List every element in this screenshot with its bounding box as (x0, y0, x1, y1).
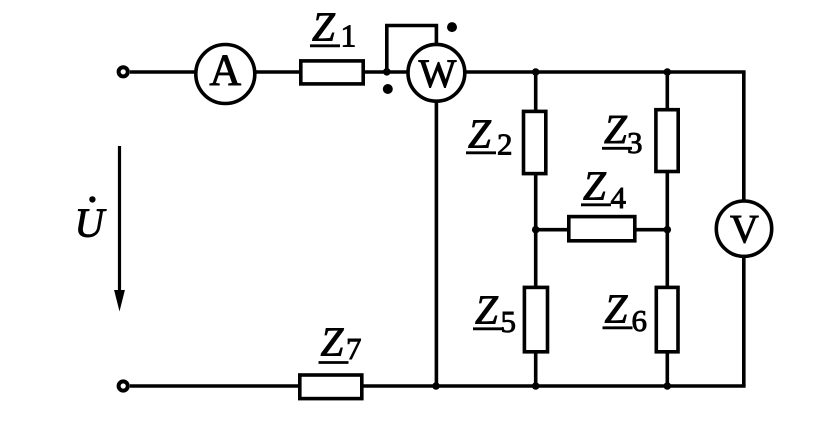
svg-text:7: 7 (346, 331, 362, 366)
label Z5 (473, 287, 516, 340)
wire: Z4 bridge row between branches (536, 228, 668, 232)
label U (phasor voltage, dot above) (75, 196, 107, 245)
svg-text:W: W (419, 51, 457, 96)
ammeter A (196, 45, 255, 104)
resistor Z3 (body) (656, 110, 678, 172)
svg-text:Z: Z (321, 319, 345, 365)
label Z7 (319, 319, 362, 367)
resistor Z4 (body) (569, 217, 635, 241)
svg-text:6: 6 (632, 303, 648, 338)
resistor Z6 (body) (656, 287, 678, 351)
resistor Z1 (body) (301, 61, 363, 84)
svg-text:Z: Z (604, 106, 628, 152)
wire: wattmeter voltage-coil loop (junction up, across, down into W top) (387, 26, 437, 73)
wire: top bus from input terminal through A, Z1, W to right corner (130, 70, 746, 74)
terminal: upper input terminal (119, 67, 128, 76)
resistor Z5 (body) (524, 287, 547, 351)
svg-text:U: U (75, 200, 107, 246)
label Z3 (602, 106, 643, 160)
wire: right branch vertical (Z3 / Z6 string) (665, 72, 669, 386)
svg-text:A: A (209, 46, 241, 95)
svg-text:Z: Z (468, 111, 492, 157)
wire: left branch vertical (Z2 / Z5 string) (534, 72, 538, 386)
wire: bottom bus from lower terminal through Z7 to right corner (130, 384, 746, 388)
label Z6 (603, 286, 648, 339)
junction: top bus / right branch (664, 68, 672, 76)
junction: left branch / Z4 row (532, 226, 540, 234)
voltmeter V (716, 201, 771, 256)
svg-text:4: 4 (611, 180, 627, 215)
terminal: lower input terminal (119, 381, 128, 390)
svg-text:3: 3 (627, 125, 643, 160)
svg-text:Z: Z (312, 4, 336, 50)
wire: wattmeter bottom lead down to bottom bus (435, 72, 439, 386)
svg-text:V: V (730, 207, 759, 252)
label Z2 (466, 111, 513, 162)
junction: bottom bus / right branch (664, 382, 672, 390)
resistor Z2 (body) (524, 111, 546, 173)
junction: right branch / Z4 row (664, 226, 672, 234)
resistor Z7 (body) (300, 375, 362, 399)
junction: node after Z1 (wattmeter tap) (383, 68, 391, 76)
svg-text:1: 1 (341, 19, 357, 54)
junction: bottom bus / left branch (532, 382, 540, 390)
junction: top bus / left branch (532, 68, 540, 76)
junction: bottom bus / wattmeter lead (432, 382, 440, 390)
label Z4 (581, 163, 627, 216)
wire: right vertical drop to voltmeter and bottom bus (742, 72, 746, 386)
source voltage arrow (direction of U) (114, 146, 125, 312)
svg-text:5: 5 (501, 304, 517, 339)
svg-text:2: 2 (497, 127, 513, 162)
label Z1 (310, 4, 356, 54)
polarity dot: wattmeter voltage coil (447, 22, 457, 32)
wattmeter W (408, 44, 465, 101)
svg-text:Z: Z (605, 286, 629, 332)
svg-text:Z: Z (475, 287, 499, 333)
svg-text:Z: Z (583, 163, 607, 209)
polarity dot: wattmeter current coil (383, 84, 393, 94)
